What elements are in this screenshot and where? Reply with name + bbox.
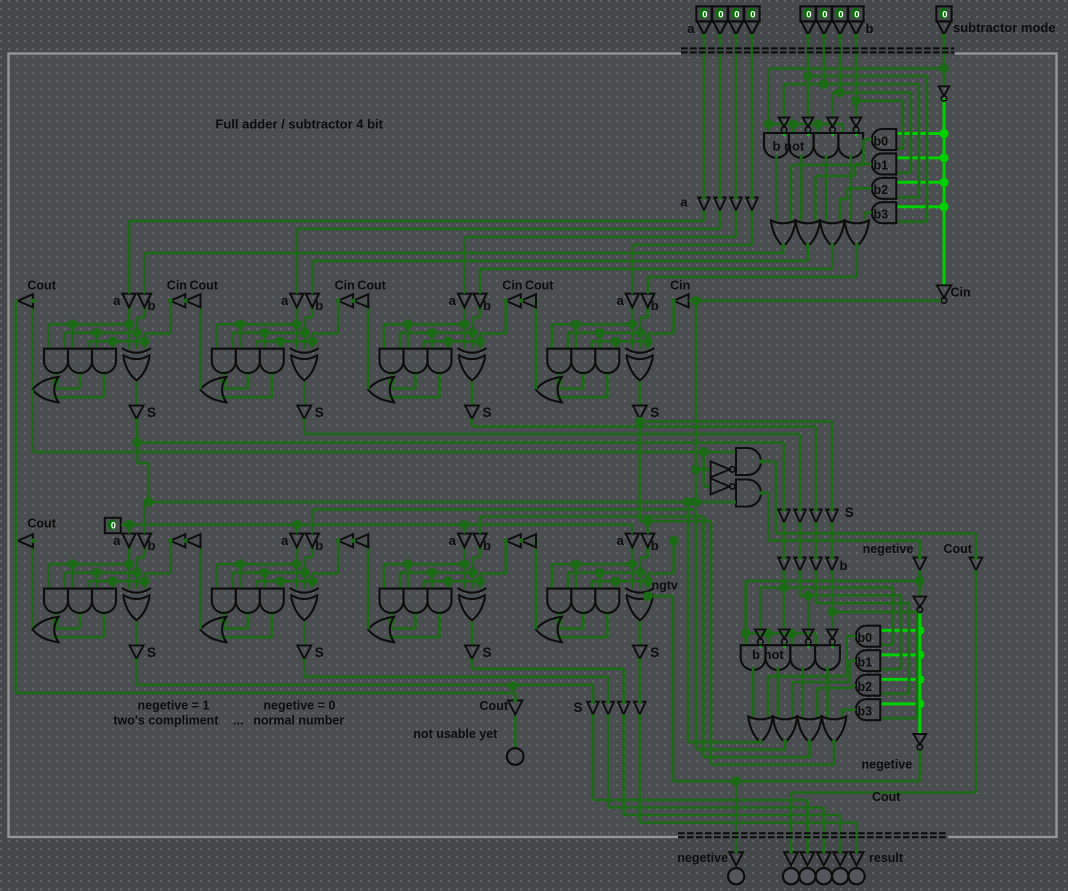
svg-text:Cout: Cout [480,699,509,713]
b-not bottom: connector triangles [755,629,766,639]
full adder r2 bit1: wire cin feed [337,541,340,574]
wire subtractor mode rail lower (bright) [943,99,946,286]
input pins b3..b0 [800,6,815,21]
svg-text:negetive: negetive [862,758,913,772]
svg-text:a: a [113,533,121,548]
svg-text:b: b [651,538,659,553]
full adder r1 bit0: wire AND outputs to OR [55,371,58,388]
full adder r2 bit1: XOR gate (sum) [290,588,319,593]
svg-text:negetive = 1: negetive = 1 [138,699,210,713]
full adder r2 bit2: wire cin distribution [424,580,480,583]
full adder r1 bit1: OR gate (carry) [200,377,226,402]
svg-text:Cout: Cout [27,278,56,292]
svg-text:b not: b not [773,139,805,154]
input pins a3..a0 [696,6,711,21]
full adder r1 bit1: input pin b [306,294,319,308]
full adder r2 bit0: XOR gate (sum) [122,588,151,593]
full adder r1 bit3: input pin b [641,294,654,308]
full adder r1 bit3: output pin S [633,406,647,419]
carry-in triangle of r1 bit3 [674,294,689,307]
svg-text:S: S [845,505,854,520]
svg-text:b0: b0 [874,134,889,148]
r1 bit0 final carry triangle (Cout) [18,294,33,307]
b-not bottom: box output staircases [847,635,856,638]
wire negative to output [918,751,921,782]
svg-text:Cin: Cin [951,286,971,300]
carry pair r2 1: Cout indicator triangle [353,534,368,547]
wire negative chain [918,571,921,597]
full adder r2 bit2: wire AND outputs to OR [390,611,393,628]
full adder r1 bit2: wire cin feed [504,301,507,334]
full adder r1 bit1: junction dots [292,320,302,330]
carry pair r2 0: Cin indicator triangle [170,534,185,547]
full adder r1 bit0: XOR gate (sum) [122,348,151,353]
svg-text:Cout: Cout [872,790,901,804]
svg-text:0: 0 [111,521,116,531]
b-not top: nested b feeds to boxes [926,76,929,222]
negative connector 2 with bubble [913,734,926,745]
full adder r2 bit3: AND gate a·b [547,589,571,613]
full adder r2 bit0: AND gate a·b [44,589,68,613]
S-row connector triangles [778,510,790,523]
full adder r2 bit0: OR gate (carry) [33,617,59,642]
b-not top: boxes b0..b3 [872,129,897,150]
wire select bus across AND inputs [769,123,843,126]
full adder r1 bit2: output pin S [465,406,479,419]
wire r2 S0 to funnel [135,659,138,685]
full adder r2 bit3: XOR gate (sum) [625,588,654,593]
full adder r2 bit1: input pin a [290,534,303,548]
b-not bottom: nested feeds to boxes [892,588,895,645]
carry pair r1 0: Cout indicator triangle [186,294,201,307]
wire a bit2 to r1 blk1 [719,211,722,229]
svg-text:b0: b0 [858,631,873,645]
full adder r2 bit2: wire b jog [479,547,482,557]
svg-text:b not: b not [752,647,784,662]
svg-text:Cout: Cout [525,278,554,292]
full adder r2 bit1: wire AND outputs to OR [223,611,226,628]
svg-text:negetive: negetive [863,542,914,556]
svg-text:S: S [574,700,583,715]
full adder r1 bit1: wire AND outputs to OR [223,371,226,388]
svg-text:a: a [617,293,625,308]
svg-text:a: a [687,21,695,36]
full adder r2 bit0: input pin b [138,534,151,548]
full adder r1 bit1: XOR gate (sum) [290,348,319,353]
svg-text:0: 0 [838,10,843,21]
wire row2 b bus 1 [312,508,696,511]
full adder r1 bit2: junction dots [460,320,470,330]
full adder r2 bit3: AND gate b·cin [595,589,619,613]
full adder r1 bit2: XOR gate (sum) [458,348,487,353]
full adder r2 bit1: wire b distribution [232,571,304,574]
carry pair r2 2: Cin indicator triangle [506,534,521,547]
full adder r2 bit3: wire cin distribution [592,580,648,583]
b-not bottom: OR gates row [748,717,773,743]
carry pair r1 2: wire from carry chain [535,301,538,390]
full adder r1 bit1: wire cin feed [337,301,340,334]
svg-text:a: a [617,533,625,548]
bright negative rail [918,614,921,735]
full adder r2 bit1: wire sum output [303,620,306,645]
full adder r2 bit0: wire sum output [135,620,138,645]
svg-text:0: 0 [854,10,859,21]
svg-text:negetive = 0: negetive = 0 [263,699,335,713]
bus separator top background [681,46,955,57]
carry pair r1 1: Cin indicator triangle [338,294,353,307]
full adder r2 bit2: OR gate (carry) [368,617,394,642]
output pins result [784,852,798,865]
svg-text:Cin: Cin [167,278,187,292]
full adder r1 bit0: wire cin feed [169,301,172,334]
full adder r2 bit0: wire cin feed [169,541,172,574]
wire Cin to r1 blk3 [689,299,941,302]
carry pair r1 1: wire from carry chain [367,301,370,390]
full adder r1 bit1: wire sum output [303,380,306,405]
wire r1 S0 to S-row [137,441,784,444]
svg-text:Cin: Cin [335,278,355,292]
full adder r1 bit3: AND gate b·cin [595,349,619,373]
wire select to top inverter block [769,67,945,70]
full adder r2 bit2: input pin a [458,534,471,548]
funnel S connector triangles [587,702,599,715]
full adder r2 bit0: AND gate a·cin [68,589,92,613]
wire into NOT1 [696,468,711,471]
wire row2 b bus 0 [145,501,737,504]
svg-text:two's compliment: two's compliment [113,713,219,727]
full adder r2 bit0: wire AND outputs to OR [55,611,58,628]
full adder r1 bit2: OR gate (carry) [368,377,394,402]
full adder r2 bit0: wire cin distribution [89,580,145,583]
svg-text:Cin: Cin [502,278,522,292]
wire r2 blk3 cin hang [672,539,675,542]
full adder r1 bit0: wire a distribution [128,307,131,324]
svg-text:b: b [483,538,491,553]
output pin negetive [729,852,743,865]
full adder r2 bit0: junction dots [124,559,134,569]
b-not bottom: OR output nubs [758,739,762,743]
svg-text:Cout: Cout [27,517,56,531]
b-not bottom: S jogs into connectors [760,586,893,589]
wire b staircase y92 [833,91,912,94]
svg-text:Full adder / subtractor 4 bit: Full adder / subtractor 4 bit [215,116,383,131]
a-row connector triangles [698,198,710,211]
full adder r2 bit2: AND gate a·b [380,589,404,613]
b-not top: AND gates [764,133,789,158]
full adder r2 bit3: wire AND outputs to OR [558,611,561,628]
full adder r2 bit3: wire b jog [646,547,649,557]
wires a pins to a-row [703,36,706,198]
full adder r1 bit0: AND gate b·cin [92,349,116,373]
full adder r2 bit0: output pin S [130,645,144,658]
full adder r1 bit0: wire cin distribution [89,340,145,343]
svg-text:S: S [147,645,156,660]
b-not top: input connector triangles [779,118,790,128]
wire Cin chain down [695,301,698,502]
svg-text:S: S [483,405,492,420]
wire gate B output to negative display [761,492,768,495]
svg-text:S: S [483,645,492,660]
carry pair r2 1: wire from carry chain [367,541,370,630]
svg-text:Cout: Cout [357,278,386,292]
full adder r1 bit2: AND gate b·cin [428,349,452,373]
svg-text:0: 0 [942,10,947,21]
full adder r1 bit2: wire sum output [471,380,474,405]
svg-text:b1: b1 [858,656,873,670]
full adder r2 bit3: junction dots [628,559,638,569]
full adder r2 bit0: wire a distribution [128,547,131,564]
full adder r1 bit3: AND gate a·b [547,349,571,373]
wire into NOT2 [702,452,705,487]
full adder r2 bit1: output pin S [297,645,311,658]
svg-text:S: S [315,405,324,420]
full adder r1 bit1: AND gate b·cin [260,349,284,373]
full adder r1 bit0: wire sum output [135,380,138,405]
negative connector with bubble [913,597,926,608]
wire row2 b bus 3 [640,520,711,523]
wire negative output line [673,780,920,783]
svg-text:0: 0 [718,10,723,21]
full adder r1 bit0: input pin b [138,294,151,308]
svg-text:b: b [315,298,323,313]
svg-text:a: a [680,195,688,210]
wire b pin 808 drop [807,36,810,118]
full adder r1 bit3: wire cin distribution [592,340,648,343]
svg-text:b2: b2 [858,680,873,694]
full adder r1 bit2: wire a distribution [463,307,466,324]
full adder r1 bit2: wire AND outputs to OR [390,371,393,388]
svg-text:b: b [315,538,323,553]
wire const0 bus to row2 a inputs [121,523,632,526]
unused Cout circle [507,748,524,765]
svg-text:b3: b3 [874,208,889,222]
full adder r1 bit2: wire b distribution [400,331,473,334]
wire r2 Cout to left rail [16,539,18,542]
full adder r1 bit2: wire carry-out riser [367,301,370,388]
svg-text:0: 0 [702,10,707,21]
full adder r2 bit2: output pin S [465,645,479,658]
full adder r1 bit2: AND gate a·b [380,349,404,373]
full adder r1 bit0: AND gate a·b [44,349,68,373]
svg-text:Cin: Cin [670,278,690,292]
b-not top: selector boxes b0..b3 bright inputs [897,132,945,135]
carry pair r2 2: Cout indicator triangle [521,534,536,547]
full adder r2 bit1: wire b jog [311,547,314,557]
wire r1 S1 to S-row [303,419,306,434]
full adder r1 bit0: input pin a [122,294,135,308]
full adder r1 bit1: wire b distribution [232,331,304,334]
full adder r1 bit0: AND gate a·cin [68,349,92,373]
full adder r2 bit1: AND gate b·cin [260,589,284,613]
wire b pin 840 drop [839,36,842,93]
b-not bottom: AND output drops [752,667,755,717]
b-not bottom: boxes b0..b3 [856,626,881,647]
full adder r2 bit3: AND gate a·cin [571,589,595,613]
full adder r1 bit2: wire cin distribution [424,340,480,343]
full adder r1 bit3: input pin a [626,294,639,308]
wire b pin 856 drop [855,36,858,118]
full adder r2 bit3: input pin a [626,534,639,548]
full adder r1 bit3: wire b jog [646,307,649,317]
b-row connector triangles [778,558,790,571]
wire b staircase y76 [808,75,927,78]
full adder r1 bit3: wire b distribution [568,331,641,334]
full adder r2 bit1: input pin b [306,534,319,548]
full adder r1 bit1: output pin S [297,406,311,419]
full adder r1 bit0: wire carry-out riser [31,301,34,388]
full adder r2 bit3: wire carry-out riser [534,541,537,628]
full adder r1 bit0: output pin S [130,406,144,419]
full adder r2 bit3: OR gate (carry) [536,617,562,642]
full adder r2 bit1: AND gate a·cin [236,589,260,613]
full adder r2 bit2: AND gate b·cin [428,589,452,613]
wire a bit0 to r1 blk3 [751,211,754,245]
b-not top: OR gates row [771,221,796,247]
full adder r1 bit1: wire a distribution [295,307,298,324]
full adder r1 bit1: input pin a [290,294,303,308]
bright rail junction dots [939,64,949,74]
bus separator bottom background [678,830,948,839]
ngtv tap from r2 blk3 [643,591,653,601]
connector on bright rail [939,86,950,96]
full adder r1 bit3: wire sum output [638,380,641,405]
full adder r1 bit0: wire b distribution [65,331,138,334]
full adder r1 bit1: wire cin distribution [256,340,312,343]
full adder r1 bit3: wire a distribution [631,307,634,324]
svg-text:S: S [147,405,156,420]
full adder r1 bit1: wire b jog [311,307,314,317]
full adder r2 bit2: XOR gate (sum) [458,588,487,593]
carry pair r2 0: wire from carry chain [199,541,202,630]
svg-text:a: a [449,533,457,548]
wire carry-out of adder to overflow AND [31,390,34,453]
wire to unused Cout [16,692,515,695]
b-not top: OR output nubs [781,243,785,247]
NOT gate 1 [711,461,730,477]
full adder r2 bit1: OR gate (carry) [200,617,226,642]
full adder r2 bit1: junction dots [292,559,302,569]
full adder r1 bit0: wire b jog [143,307,146,317]
full adder r2 bit2: junction dots [460,559,470,569]
svg-text:b: b [483,298,491,313]
wire b staircase y84 [784,83,919,86]
svg-text:S: S [650,405,659,420]
full adder r2 bit2: wire cin feed [504,541,507,574]
full adder r2 bit3: wire b distribution [568,571,641,574]
svg-text:Cout: Cout [944,542,973,556]
b-not bottom: AND gates [741,645,766,670]
wire r1 Cout to left rail [16,299,18,302]
wire r2 S1 to funnel [303,659,306,677]
svg-text:S: S [315,645,324,660]
full adder r1 bit1: AND gate a·b [212,349,236,373]
svg-text:b2: b2 [874,183,889,197]
wire b staircase y101 [856,100,903,103]
junctions b staircase [803,71,813,81]
full adder r1 bit2: input pin b [473,294,486,308]
wire r1 S0 drop [136,419,139,443]
full adder r2 bit1: wire carry-out riser [199,541,202,628]
svg-text:0: 0 [750,10,755,21]
svg-text:b: b [651,298,659,313]
full adder r1 bit3: wire carry-out riser [534,301,537,388]
svg-text:...: ... [233,713,243,727]
b-not bottom: selector boxes bright inputs [881,629,920,632]
full adder r2 bit0: AND gate b·cin [92,589,116,613]
wire r1 S3 to S-row [638,419,641,521]
carry pair r1 0: wire from carry chain [199,301,202,390]
carry pair r1 2: Cin indicator triangle [506,294,521,307]
wire b pin 824 drop [823,36,826,84]
carry pair r1 0: Cin indicator triangle [170,294,185,307]
svg-text:a: a [449,293,457,308]
b-not bottom: OR outputs to row2 b buses [687,502,690,742]
full adder r1 bit3: wire AND outputs to OR [558,371,561,388]
full adder r1 bit2: AND gate a·cin [404,349,428,373]
full adder r2 bit0: input pin a [122,534,135,548]
full adder r2 bit0: wire carry-out riser [31,541,34,628]
svg-text:ngtv: ngtv [652,579,678,593]
NOT gate 2 [711,479,730,495]
b-not top: AND output drops [775,155,778,221]
svg-text:0: 0 [806,10,811,21]
full adder r2 bit0: wire b jog [143,547,146,557]
full adder r2 bit1: wire a distribution [295,547,298,564]
carry pair r1 1: Cout indicator triangle [353,294,368,307]
input pin subtractor mode [936,6,951,21]
AND gate B (negative detect) [736,480,761,507]
AND gate A (Cout detect) [736,448,761,475]
negative display triangle [913,558,926,571]
full adder r2 bit2: wire carry-out riser [367,541,370,628]
carry pair r2 2: wire from carry chain [535,541,538,630]
constant 0 pin for row2 [105,518,121,533]
full adder r2 bit2: wire a distribution [463,547,466,564]
svg-text:b: b [148,298,156,313]
full adder r1 bit2: wire b jog [479,307,482,317]
carry pair r2 1: Cin indicator triangle [338,534,353,547]
wire row2 b bus 2 [480,515,704,518]
svg-text:a: a [281,533,289,548]
carry pair r1 2: Cout indicator triangle [521,294,536,307]
full adder r1 bit3: OR gate (carry) [536,377,562,402]
b-not top: box output staircases [864,138,872,141]
svg-text:b: b [148,538,156,553]
full adder r2 bit3: input pin b [641,534,654,548]
full adder r2 bit2: wire b distribution [400,571,473,574]
unused Cout connector [514,693,517,701]
svg-text:b1: b1 [874,159,889,173]
svg-text:a: a [113,293,121,308]
wires b-row into bottom inverter block [783,572,786,630]
wires S-row to b-row [783,524,786,558]
full adder r2 bit3: wire sum output [638,620,641,645]
full adder r2 bit1: wire cin distribution [256,580,312,583]
wire r2 S3 to funnel [638,659,641,702]
full adder r2 bit1: AND gate a·b [212,589,236,613]
svg-text:a: a [281,293,289,308]
full adder r1 bit1: wire carry-out riser [199,301,202,388]
full adder r2 bit3: output pin S [633,645,647,658]
svg-text:result: result [869,851,904,865]
wire r1 S2 to S-row [471,419,474,427]
svg-text:b3: b3 [858,705,873,719]
wire subtractor mode rail upper (dark) [943,36,946,86]
full adder r2 bit3: wire a distribution [631,547,634,564]
Cout display triangle [970,558,983,571]
wire a bit3 to r1 blk0 [703,211,706,221]
full adder r2 bit2: wire sum output [471,620,474,645]
